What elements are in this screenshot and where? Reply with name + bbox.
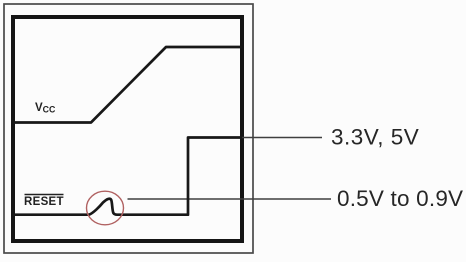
inner thick frame xyxy=(13,17,242,241)
svg-text:0.5V to 0.9V: 0.5V to 0.9V xyxy=(337,186,463,211)
wire RESET waveform with glitch xyxy=(13,138,242,215)
svg-text:VCC: VCC xyxy=(35,102,56,115)
wire Vcc waveform xyxy=(13,47,242,123)
leader line to 0.5V label xyxy=(128,198,332,200)
svg-text:3.3V, 5V: 3.3V, 5V xyxy=(331,125,419,150)
leader line to 3.3V label xyxy=(242,137,322,139)
red highlight circle xyxy=(87,191,124,225)
outer thin frame xyxy=(4,4,253,253)
svg-text:RESET: RESET xyxy=(24,196,64,208)
